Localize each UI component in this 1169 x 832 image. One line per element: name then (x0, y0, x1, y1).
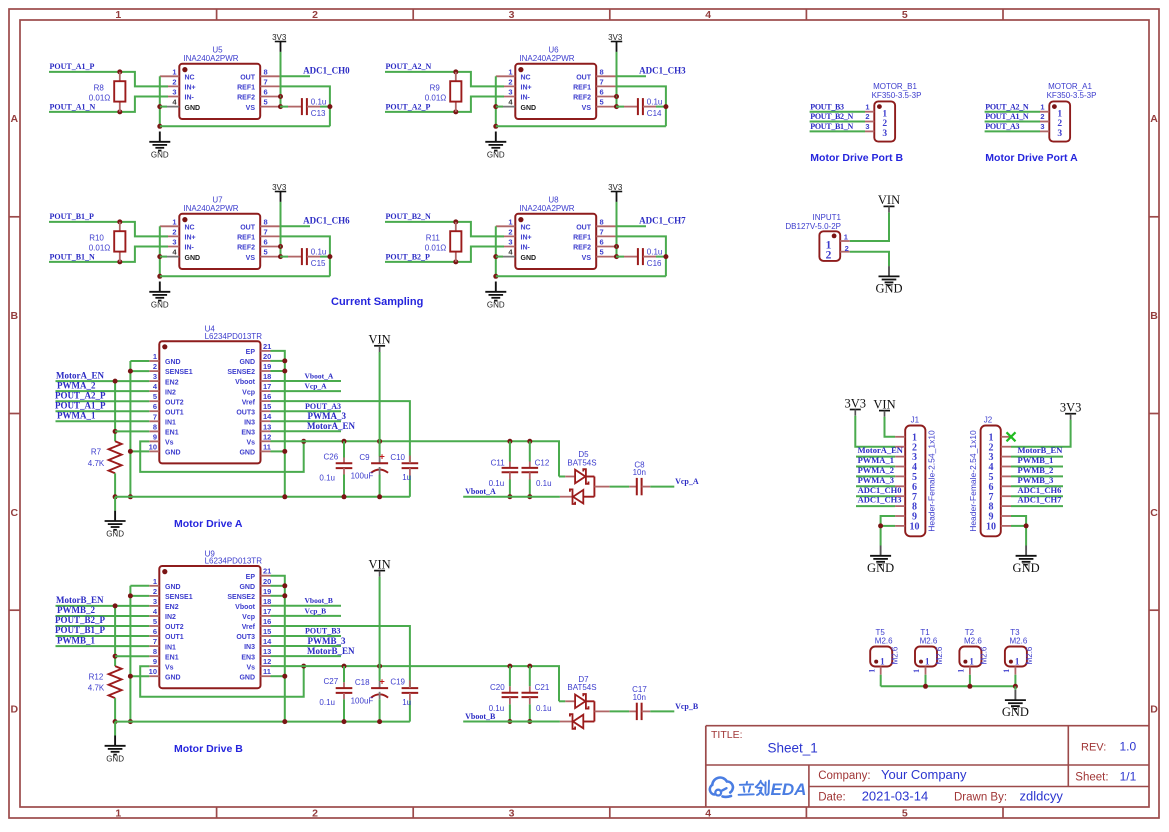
svg-text:1: 1 (1002, 669, 1011, 673)
svg-text:EN3: EN3 (241, 430, 255, 437)
svg-text:8: 8 (153, 422, 157, 431)
svg-text:POUT_B3: POUT_B3 (810, 102, 844, 111)
svg-text:6: 6 (264, 238, 268, 247)
svg-text:2: 2 (882, 119, 887, 129)
svg-text:OUT: OUT (240, 75, 256, 82)
svg-text:ADC1_CH6: ADC1_CH6 (303, 216, 350, 226)
svg-text:+: + (379, 452, 385, 463)
svg-text:Sheet:: Sheet: (1075, 772, 1108, 784)
svg-text:6: 6 (153, 402, 157, 411)
svg-text:ADC1_CH7: ADC1_CH7 (639, 216, 686, 226)
svg-text:3: 3 (508, 238, 512, 247)
svg-text:POUT_B2_P: POUT_B2_P (386, 253, 431, 262)
svg-text:PWMA_3: PWMA_3 (858, 475, 894, 485)
svg-text:1: 1 (1057, 109, 1062, 119)
svg-text:EN1: EN1 (165, 430, 179, 437)
svg-text:MotorB_EN: MotorB_EN (307, 646, 355, 656)
svg-text:PWMB_3: PWMB_3 (308, 636, 346, 646)
svg-text:6: 6 (264, 88, 268, 97)
svg-text:POUT_B1_N: POUT_B1_N (810, 122, 853, 131)
svg-text:C12: C12 (535, 458, 550, 467)
svg-text:T2: T2 (965, 628, 975, 637)
svg-text:3: 3 (153, 372, 157, 381)
svg-text:C21: C21 (535, 683, 550, 692)
svg-text:IN3: IN3 (244, 419, 255, 426)
svg-text:GND: GND (239, 359, 255, 366)
svg-text:1u: 1u (402, 698, 411, 707)
svg-text:14: 14 (263, 637, 272, 646)
svg-text:18: 18 (263, 597, 271, 606)
svg-text:D: D (1150, 703, 1158, 715)
svg-text:SENSE2: SENSE2 (227, 594, 255, 601)
svg-text:REF1: REF1 (237, 235, 255, 242)
svg-text:7: 7 (264, 77, 268, 86)
svg-text:2: 2 (508, 227, 512, 236)
svg-text:3V3: 3V3 (272, 183, 287, 192)
svg-text:R7: R7 (91, 448, 102, 457)
svg-text:2: 2 (1057, 119, 1062, 129)
svg-text:REF2: REF2 (573, 95, 591, 102)
svg-text:DB127V-5.0-2P: DB127V-5.0-2P (785, 222, 841, 231)
svg-text:VIN: VIN (368, 333, 390, 347)
svg-text:OUT: OUT (240, 225, 256, 232)
svg-text:INA240A2PWR: INA240A2PWR (183, 54, 238, 63)
svg-text:11: 11 (263, 442, 271, 451)
svg-text:C10: C10 (390, 453, 405, 462)
svg-text:GND: GND (106, 530, 124, 539)
svg-text:IN1: IN1 (165, 420, 176, 427)
svg-text:C13: C13 (311, 109, 326, 118)
svg-text:NC: NC (185, 225, 195, 232)
svg-text:Current Sampling: Current Sampling (331, 296, 423, 308)
svg-text:Vcp_A: Vcp_A (305, 382, 328, 391)
svg-text:M2.6: M2.6 (964, 637, 982, 646)
svg-text:3V3: 3V3 (845, 396, 867, 410)
svg-text:Your Company: Your Company (881, 767, 967, 782)
svg-text:BAT54S: BAT54S (567, 683, 596, 692)
svg-text:VS: VS (582, 255, 592, 262)
svg-text:2: 2 (865, 112, 869, 121)
svg-text:EN2: EN2 (165, 379, 179, 386)
svg-text:REF1: REF1 (573, 235, 591, 242)
svg-text:1: 1 (508, 217, 512, 226)
svg-text:EN3: EN3 (241, 654, 255, 661)
svg-text:15: 15 (263, 627, 271, 636)
svg-text:3: 3 (509, 9, 515, 21)
svg-text:POUT_B2_P: POUT_B2_P (55, 615, 106, 625)
svg-text:KF350-3.5-3P: KF350-3.5-3P (1047, 91, 1097, 100)
svg-text:M2.6: M2.6 (1010, 637, 1028, 646)
svg-text:1: 1 (115, 808, 121, 820)
svg-text:Vcp: Vcp (242, 389, 255, 396)
svg-text:INA240A2PWR: INA240A2PWR (519, 54, 574, 63)
svg-text:SENSE2: SENSE2 (227, 369, 255, 376)
svg-text:GND: GND (239, 674, 255, 681)
svg-text:ADC1_CH0: ADC1_CH0 (303, 66, 350, 76)
svg-text:8: 8 (600, 67, 604, 76)
svg-text:10n: 10n (633, 693, 646, 702)
svg-text:R9: R9 (430, 83, 441, 92)
svg-text:C: C (11, 507, 19, 519)
svg-text:13: 13 (263, 647, 271, 656)
svg-text:5: 5 (153, 617, 157, 626)
svg-text:2021-03-14: 2021-03-14 (862, 788, 929, 803)
svg-text:POUT_A1_N: POUT_A1_N (50, 103, 96, 112)
svg-text:15: 15 (263, 402, 271, 411)
svg-text:11: 11 (263, 667, 271, 676)
svg-text:NC: NC (185, 75, 195, 82)
svg-text:8: 8 (264, 67, 268, 76)
svg-text:7: 7 (153, 412, 157, 421)
svg-text:GND: GND (106, 754, 124, 763)
svg-text:1: 1 (153, 577, 157, 586)
svg-text:9: 9 (153, 657, 157, 666)
svg-text:Sheet_1: Sheet_1 (768, 740, 818, 755)
svg-text:Vs: Vs (246, 664, 255, 671)
svg-text:GND: GND (151, 300, 169, 309)
svg-text:MOTOR_B1: MOTOR_B1 (873, 82, 917, 91)
svg-text:ADC1_CH6: ADC1_CH6 (1018, 485, 1062, 495)
svg-text:POUT_A2_P: POUT_A2_P (55, 390, 106, 400)
svg-text:1: 1 (882, 109, 887, 119)
svg-text:3: 3 (172, 238, 176, 247)
svg-text:Motor Drive B: Motor Drive B (174, 743, 243, 755)
svg-text:PWMB_2: PWMB_2 (57, 605, 95, 615)
svg-text:VS: VS (246, 255, 256, 262)
svg-text:POUT_B3: POUT_B3 (305, 627, 341, 636)
svg-text:POUT_B1_P: POUT_B1_P (50, 212, 95, 221)
svg-text:Motor Drive Port B: Motor Drive Port B (810, 152, 903, 164)
svg-text:Vboot_B: Vboot_B (465, 712, 496, 721)
svg-text:PWMA_2: PWMA_2 (858, 465, 894, 475)
svg-text:2: 2 (845, 244, 849, 253)
svg-text:Vcp: Vcp (242, 614, 255, 621)
svg-text:POUT_B2_N: POUT_B2_N (810, 112, 853, 121)
svg-text:4: 4 (705, 9, 711, 21)
svg-text:2: 2 (153, 362, 157, 371)
svg-text:VS: VS (246, 105, 256, 112)
svg-text:Vs: Vs (165, 440, 174, 447)
svg-text:INA240A2PWR: INA240A2PWR (183, 204, 238, 213)
svg-text:100uF: 100uF (351, 472, 374, 481)
svg-text:M2.6: M2.6 (1025, 646, 1034, 664)
svg-text:12: 12 (263, 657, 271, 666)
svg-text:J2: J2 (984, 415, 993, 424)
svg-text:MotorA_EN: MotorA_EN (307, 421, 355, 431)
svg-text:REF2: REF2 (573, 245, 591, 252)
svg-text:2: 2 (153, 587, 157, 596)
svg-text:GND: GND (165, 584, 181, 591)
svg-text:VIN: VIN (368, 557, 390, 571)
svg-text:M2.6: M2.6 (890, 646, 899, 664)
svg-text:3: 3 (882, 129, 887, 139)
svg-text:MotorB_EN: MotorB_EN (1018, 445, 1064, 455)
svg-text:1: 1 (1015, 657, 1020, 667)
svg-text:GND: GND (521, 255, 537, 262)
svg-text:1: 1 (912, 669, 921, 673)
svg-text:SENSE1: SENSE1 (165, 594, 193, 601)
svg-text:IN+: IN+ (185, 235, 196, 242)
svg-text:1: 1 (153, 352, 157, 361)
svg-text:IN-: IN- (185, 245, 195, 252)
svg-text:Date:: Date: (818, 791, 846, 803)
svg-text:R11: R11 (426, 233, 441, 242)
svg-text:IN+: IN+ (185, 85, 196, 92)
svg-text:10n: 10n (633, 468, 646, 477)
svg-text:L6234PD013TR: L6234PD013TR (205, 332, 263, 341)
svg-text:PWMA_3: PWMA_3 (308, 411, 347, 421)
svg-text:C18: C18 (355, 678, 370, 687)
svg-text:GND: GND (151, 150, 169, 159)
svg-text:3: 3 (865, 122, 869, 131)
svg-text:1/1: 1/1 (1120, 770, 1137, 784)
svg-text:MotorA_EN: MotorA_EN (56, 370, 104, 380)
svg-text:1: 1 (115, 9, 121, 21)
svg-text:OUT2: OUT2 (165, 399, 184, 406)
svg-text:ADC1_CH0: ADC1_CH0 (858, 485, 902, 495)
svg-text:0.1u: 0.1u (647, 98, 663, 107)
svg-text:GND: GND (487, 300, 505, 309)
svg-text:L6234PD013TR: L6234PD013TR (205, 557, 263, 566)
svg-text:PWMB_1: PWMB_1 (57, 635, 95, 645)
svg-text:0.01Ω: 0.01Ω (425, 93, 447, 102)
svg-text:2: 2 (1040, 112, 1044, 121)
svg-text:Company:: Company: (818, 770, 870, 782)
svg-text:OUT3: OUT3 (236, 634, 255, 641)
svg-text:IN-: IN- (521, 95, 531, 102)
svg-text:TITLE:: TITLE: (711, 729, 743, 741)
svg-text:M2.6: M2.6 (935, 646, 944, 664)
svg-text:Vcp_A: Vcp_A (675, 477, 699, 486)
svg-text:2: 2 (312, 9, 318, 21)
svg-text:Vcp_B: Vcp_B (305, 606, 327, 615)
svg-text:10: 10 (149, 442, 157, 451)
svg-text:21: 21 (263, 567, 271, 576)
svg-text:GND: GND (521, 105, 537, 112)
svg-text:POUT_A3: POUT_A3 (305, 402, 341, 411)
svg-text:IN-: IN- (185, 95, 195, 102)
svg-text:Vref: Vref (242, 624, 256, 631)
svg-text:D: D (11, 703, 19, 715)
svg-text:1: 1 (865, 102, 869, 111)
svg-text:OUT1: OUT1 (165, 634, 184, 641)
svg-text:10: 10 (149, 667, 157, 676)
svg-text:Vboot_A: Vboot_A (465, 487, 496, 496)
svg-text:5: 5 (902, 9, 908, 21)
svg-text:C16: C16 (647, 259, 662, 268)
svg-text:A: A (1150, 113, 1158, 125)
svg-text:12: 12 (263, 432, 271, 441)
svg-text:+: + (379, 676, 385, 687)
svg-text:7: 7 (600, 227, 604, 236)
svg-text:1.0: 1.0 (1120, 740, 1137, 754)
svg-text:Motor Drive A: Motor Drive A (174, 518, 243, 530)
svg-text:0.1u: 0.1u (311, 98, 327, 107)
svg-text:REF1: REF1 (573, 85, 591, 92)
svg-text:OUT2: OUT2 (165, 624, 184, 631)
svg-text:OUT1: OUT1 (165, 409, 184, 416)
svg-text:PWMB_1: PWMB_1 (1018, 455, 1054, 465)
svg-text:1: 1 (172, 217, 176, 226)
svg-text:PWMA_1: PWMA_1 (57, 411, 96, 421)
svg-text:GND: GND (165, 675, 181, 682)
svg-text:19: 19 (263, 587, 271, 596)
svg-text:1: 1 (867, 669, 876, 673)
svg-text:Vcp_B: Vcp_B (675, 702, 699, 711)
svg-text:3: 3 (1040, 122, 1044, 131)
svg-text:R10: R10 (89, 233, 104, 242)
svg-text:1: 1 (880, 657, 885, 667)
svg-text:4.7K: 4.7K (88, 684, 105, 693)
svg-text:SENSE1: SENSE1 (165, 369, 193, 376)
svg-text:C14: C14 (647, 109, 662, 118)
svg-text:EN2: EN2 (165, 604, 179, 611)
svg-text:C19: C19 (390, 678, 405, 687)
svg-text:EP: EP (246, 574, 256, 581)
svg-text:VIN: VIN (878, 193, 900, 207)
svg-text:POUT_A3: POUT_A3 (985, 122, 1019, 131)
svg-text:6: 6 (600, 238, 604, 247)
svg-text:1: 1 (969, 657, 974, 667)
svg-text:2: 2 (172, 227, 176, 236)
svg-text:ADC1_CH7: ADC1_CH7 (1018, 495, 1063, 505)
svg-text:3V3: 3V3 (272, 33, 287, 42)
svg-text:J1: J1 (911, 415, 920, 424)
svg-text:0.1u: 0.1u (536, 479, 552, 488)
svg-text:0.1u: 0.1u (536, 704, 552, 713)
svg-text:PWMB_2: PWMB_2 (1018, 465, 1054, 475)
svg-text:IN+: IN+ (521, 85, 532, 92)
svg-text:EP: EP (246, 349, 256, 356)
svg-text:EN1: EN1 (165, 654, 179, 661)
svg-text:REF2: REF2 (237, 95, 255, 102)
svg-text:1: 1 (172, 67, 176, 76)
svg-text:REF2: REF2 (237, 245, 255, 252)
svg-text:2: 2 (312, 808, 318, 820)
svg-text:IN2: IN2 (165, 389, 176, 396)
svg-text:T3: T3 (1010, 628, 1020, 637)
svg-text:100uF: 100uF (351, 696, 374, 705)
svg-text:Vboot: Vboot (235, 604, 255, 611)
svg-text:POUT_A2_N: POUT_A2_N (386, 62, 432, 71)
svg-text:Vboot: Vboot (235, 379, 255, 386)
svg-text:B: B (1150, 310, 1158, 322)
svg-text:POUT_B2_N: POUT_B2_N (386, 212, 432, 221)
svg-text:IN3: IN3 (244, 644, 255, 651)
svg-text:ADC1_CH3: ADC1_CH3 (639, 66, 686, 76)
svg-text:C15: C15 (311, 259, 326, 268)
svg-text:GND: GND (185, 105, 201, 112)
svg-text:8: 8 (600, 217, 604, 226)
svg-text:3: 3 (509, 808, 515, 820)
svg-text:POUT_A2_N: POUT_A2_N (985, 102, 1029, 111)
svg-text:3V3: 3V3 (608, 183, 623, 192)
svg-text:C11: C11 (491, 458, 506, 467)
svg-text:Vref: Vref (242, 399, 256, 406)
svg-text:M2.6: M2.6 (980, 646, 989, 664)
svg-text:1: 1 (844, 233, 848, 242)
svg-text:Vs: Vs (246, 440, 255, 447)
svg-text:GND: GND (487, 150, 505, 159)
svg-text:20: 20 (263, 352, 271, 361)
svg-text:VIN: VIN (873, 397, 895, 411)
svg-text:4: 4 (705, 808, 711, 820)
svg-text:9: 9 (153, 432, 157, 441)
svg-text:5: 5 (600, 98, 604, 107)
svg-text:Vboot_A: Vboot_A (305, 371, 334, 380)
svg-text:1: 1 (508, 67, 512, 76)
svg-text:Drawn By:: Drawn By: (954, 791, 1007, 803)
svg-text:BAT54S: BAT54S (567, 458, 596, 467)
svg-text:C9: C9 (359, 453, 370, 462)
svg-text:14: 14 (263, 412, 272, 421)
svg-text:0.01Ω: 0.01Ω (89, 93, 111, 102)
svg-text:20: 20 (263, 577, 271, 586)
svg-text:B: B (11, 310, 19, 322)
svg-text:18: 18 (263, 372, 271, 381)
svg-text:R8: R8 (94, 83, 105, 92)
svg-text:MotorA_EN: MotorA_EN (858, 445, 904, 455)
svg-text:POUT_B1_N: POUT_B1_N (50, 253, 96, 262)
svg-text:OUT: OUT (576, 225, 592, 232)
svg-text:GND: GND (185, 255, 201, 262)
svg-text:ADC1_CH3: ADC1_CH3 (858, 495, 902, 505)
svg-text:R12: R12 (89, 672, 104, 681)
svg-text:IN+: IN+ (521, 235, 532, 242)
svg-text:POUT_A1_P: POUT_A1_P (55, 400, 106, 410)
svg-text:Header-Female-2.54_1x10: Header-Female-2.54_1x10 (927, 430, 937, 532)
svg-text:KF350-3.5-3P: KF350-3.5-3P (872, 91, 922, 100)
svg-text:C27: C27 (324, 677, 339, 686)
svg-text:1u: 1u (402, 473, 411, 482)
svg-text:GND: GND (239, 584, 255, 591)
svg-text:NC: NC (521, 75, 531, 82)
svg-text:1: 1 (957, 669, 966, 673)
svg-text:5: 5 (153, 392, 157, 401)
svg-text:0.1u: 0.1u (319, 698, 335, 707)
svg-text:5: 5 (264, 98, 268, 107)
svg-text:INA240A2PWR: INA240A2PWR (519, 204, 574, 213)
svg-text:4.7K: 4.7K (88, 459, 105, 468)
svg-text:Vboot_B: Vboot_B (305, 596, 333, 605)
svg-text:0.1u: 0.1u (311, 248, 327, 257)
svg-text:A: A (11, 113, 19, 125)
svg-text:16: 16 (263, 617, 271, 626)
svg-text:OUT: OUT (576, 75, 592, 82)
svg-text:MotorB_EN: MotorB_EN (56, 595, 104, 605)
svg-text:C: C (1150, 507, 1158, 519)
svg-text:MOTOR_A1: MOTOR_A1 (1048, 82, 1092, 91)
svg-text:2: 2 (508, 77, 512, 86)
svg-text:EDA: EDA (771, 780, 807, 799)
svg-text:zdldcyy: zdldcyy (1020, 788, 1064, 803)
svg-text:IN1: IN1 (165, 644, 176, 651)
svg-text:POUT_A2_P: POUT_A2_P (386, 103, 431, 112)
svg-text:0.01Ω: 0.01Ω (425, 243, 447, 252)
svg-text:8: 8 (153, 647, 157, 656)
svg-text:16: 16 (263, 392, 271, 401)
svg-text:PWMA_1: PWMA_1 (858, 455, 894, 465)
svg-text:3: 3 (172, 88, 176, 97)
svg-text:0.1u: 0.1u (319, 473, 335, 482)
svg-text:2: 2 (826, 249, 832, 261)
svg-text:T5: T5 (876, 628, 886, 637)
svg-text:6: 6 (600, 88, 604, 97)
svg-text:REF1: REF1 (237, 85, 255, 92)
svg-text:7: 7 (153, 637, 157, 646)
svg-text:POUT_A1_P: POUT_A1_P (50, 62, 95, 71)
svg-text:POUT_B1_P: POUT_B1_P (55, 625, 106, 635)
